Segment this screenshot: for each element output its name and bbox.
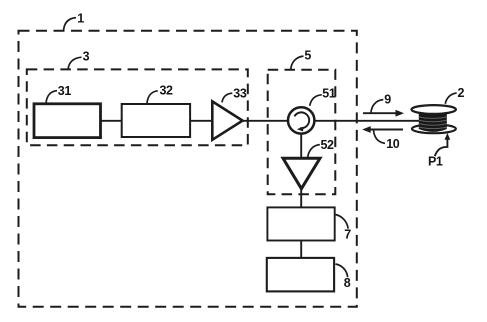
fiber coil 2 bottom flange bbox=[412, 124, 456, 133]
label 9 leader bbox=[371, 100, 383, 113]
svg-text:1: 1 bbox=[77, 11, 84, 25]
arrow 9 output direction bbox=[363, 110, 404, 117]
label 10 leader bbox=[374, 130, 386, 143]
svg-text:10: 10 bbox=[386, 137, 400, 151]
arrow P1 pump input bbox=[435, 133, 451, 156]
svg-text:P1: P1 bbox=[428, 155, 443, 169]
wire vertical from circulator 51 down to block 8 bbox=[300, 133, 302, 259]
label 51 bbox=[322, 86, 336, 100]
svg-text:2: 2 bbox=[458, 86, 465, 100]
block 8 bbox=[267, 258, 334, 292]
isolator triangle 52 bbox=[283, 158, 320, 188]
label 33 leader bbox=[222, 93, 232, 102]
svg-text:52: 52 bbox=[321, 138, 335, 152]
amplifier triangle 33 bbox=[212, 101, 242, 139]
label 33 bbox=[233, 87, 247, 101]
outer dashed enclosure box 1 bbox=[19, 31, 357, 307]
block 7 bbox=[267, 207, 334, 240]
svg-text:32: 32 bbox=[160, 83, 174, 97]
label 3 bbox=[83, 49, 90, 63]
label 7 leader bbox=[336, 215, 349, 229]
svg-text:51: 51 bbox=[322, 86, 336, 100]
label 51 leader bbox=[310, 95, 322, 106]
svg-text:3: 3 bbox=[83, 49, 90, 63]
label 2 leader bbox=[445, 93, 456, 104]
block 31 bbox=[34, 104, 101, 138]
label 3 leader bbox=[68, 57, 82, 69]
svg-text:5: 5 bbox=[304, 49, 311, 63]
svg-text:8: 8 bbox=[344, 276, 351, 290]
svg-text:31: 31 bbox=[58, 84, 72, 98]
label 5 leader bbox=[291, 56, 304, 70]
inner dashed box 3 bbox=[27, 69, 248, 145]
svg-text:7: 7 bbox=[344, 228, 351, 242]
label P1 bbox=[428, 155, 443, 169]
dashed box 5 bbox=[268, 70, 336, 194]
label 32 bbox=[160, 83, 174, 97]
circulator 51 inner rotation arrow bbox=[294, 112, 309, 131]
svg-text:33: 33 bbox=[233, 87, 247, 101]
label 8 leader bbox=[336, 264, 348, 277]
label 10 bbox=[386, 137, 400, 151]
svg-text:9: 9 bbox=[384, 93, 391, 107]
fiber coil 2 wound body bbox=[419, 113, 447, 132]
label 7 bbox=[344, 228, 351, 242]
circulator 51 circle bbox=[288, 107, 314, 133]
label 1 leader bbox=[64, 18, 77, 31]
label 5 bbox=[304, 49, 311, 63]
label 9 bbox=[384, 93, 391, 107]
label 31 leader bbox=[46, 91, 57, 104]
arrow 10 return direction bbox=[362, 126, 403, 133]
wire main horizontal from block 31 to coil 2 bbox=[100, 120, 421, 122]
label 31 bbox=[58, 84, 72, 98]
label 52 bbox=[321, 138, 335, 152]
label 8 bbox=[344, 276, 351, 290]
label 1 bbox=[77, 11, 84, 25]
block 32 bbox=[122, 104, 190, 137]
label 32 leader bbox=[147, 91, 158, 104]
label 52 leader bbox=[308, 145, 320, 158]
label 2 bbox=[458, 86, 465, 100]
fiber coil 2 top flange bbox=[412, 105, 456, 114]
